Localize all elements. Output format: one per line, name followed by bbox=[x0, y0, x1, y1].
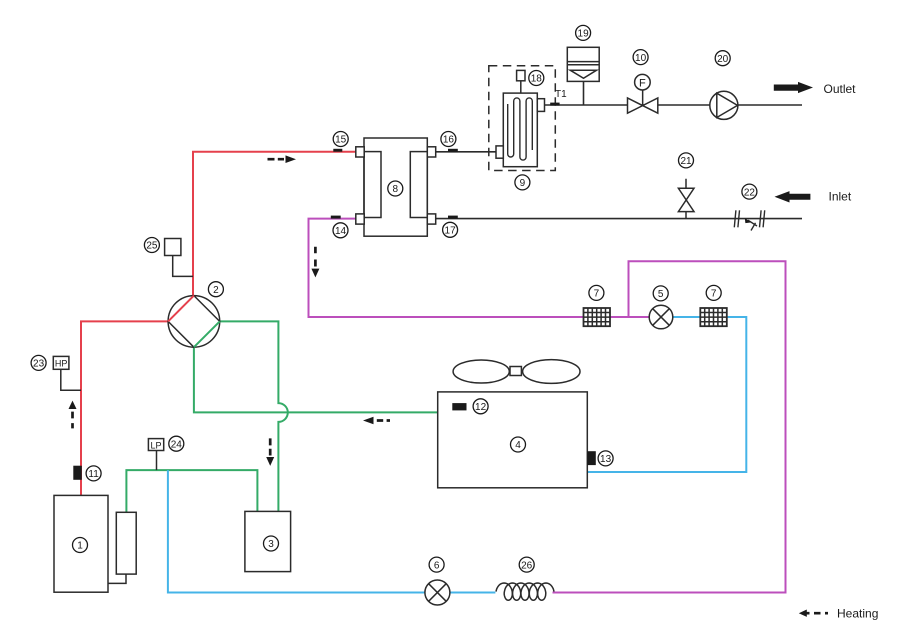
wire cyan: valve 6 to coil 26 bbox=[450, 592, 496, 594]
sensor 11 block bbox=[73, 466, 82, 480]
HX 8 port stub bottom-left bbox=[356, 214, 364, 224]
filter 7a grid bbox=[584, 308, 611, 326]
sensor tick 17 bbox=[448, 216, 458, 219]
label 18 bbox=[529, 71, 544, 86]
label 13 bbox=[598, 451, 613, 466]
heating flow arrow up beside red line bbox=[71, 412, 74, 429]
unit 4 box (air heat exchanger) bbox=[438, 392, 588, 488]
sensor tick 14 bbox=[331, 216, 341, 219]
sensor tick 16 bbox=[448, 149, 458, 152]
label 15 bbox=[333, 132, 348, 147]
label 20 bbox=[715, 51, 730, 66]
label 7a bbox=[589, 285, 604, 300]
label 24 bbox=[169, 436, 184, 451]
LP switch 24 wire bbox=[156, 451, 158, 471]
svg-text:20: 20 bbox=[717, 54, 729, 65]
wire magenta: HX port 14 left, down, right to valve 5 bbox=[309, 219, 650, 317]
HX 8 port stub bottom-right bbox=[427, 214, 435, 224]
svg-text:23: 23 bbox=[33, 359, 45, 370]
HP switch 23 wire bbox=[61, 369, 81, 390]
svg-text:7: 7 bbox=[594, 289, 600, 300]
svg-text:19: 19 bbox=[578, 29, 590, 40]
wire magenta: tee up, right, down right side, along bottom to coil 26 bbox=[553, 261, 786, 592]
heating flow arrow down beside magenta drop bbox=[314, 247, 317, 267]
svg-text:26: 26 bbox=[521, 560, 533, 571]
expansion tank 19 body bbox=[567, 47, 599, 81]
fan hub bbox=[510, 367, 521, 376]
valve 6 bbox=[425, 580, 450, 605]
label 17 bbox=[443, 222, 458, 237]
svg-text:11: 11 bbox=[88, 469, 99, 480]
wire cyan: unit 4 port 13 right and up to filter 7b bbox=[587, 317, 746, 472]
svg-text:4: 4 bbox=[515, 440, 521, 451]
sensor 25 wire bbox=[173, 256, 193, 277]
wire green: suction header over unit 1 to unit 3 bbox=[126, 470, 257, 512]
label 5 bbox=[653, 286, 668, 301]
svg-text:F: F bbox=[639, 77, 646, 89]
HX 8 port stub top-left bbox=[356, 147, 364, 157]
sensor tick T1 bbox=[550, 103, 559, 106]
heating flow arrow on red line (right) bbox=[268, 158, 285, 161]
coil 26 loops bbox=[496, 583, 554, 600]
HX 8 port stub top-right bbox=[427, 147, 435, 157]
pump 20 circle bbox=[710, 91, 738, 119]
sensor 25 box bbox=[165, 239, 181, 256]
svg-text:7: 7 bbox=[711, 289, 717, 300]
flow switch F circle bbox=[635, 74, 651, 90]
svg-text:T1: T1 bbox=[555, 89, 567, 100]
svg-text:15: 15 bbox=[335, 135, 347, 146]
svg-text:24: 24 bbox=[171, 439, 183, 450]
label 26 bbox=[519, 557, 534, 572]
svg-text:Heating: Heating bbox=[837, 606, 878, 620]
label 8 bbox=[388, 181, 403, 196]
wire black: expansion tank 19 stem bbox=[583, 81, 585, 105]
wire red discharge: compressor to valve2 top to HX port 15 bbox=[193, 152, 356, 296]
valve 21 bowtie bbox=[678, 188, 694, 211]
label 23 bbox=[31, 355, 46, 370]
svg-text:Outlet: Outlet bbox=[824, 82, 857, 96]
filter 7b grid bbox=[700, 308, 727, 326]
svg-text:17: 17 bbox=[445, 226, 457, 237]
4-way valve 2 diamond black edges bbox=[168, 296, 220, 348]
filter 7a body bbox=[584, 308, 611, 326]
svg-text:8: 8 bbox=[393, 184, 399, 195]
legend heating arrow bbox=[806, 612, 829, 615]
accumulator (thin vessel beside unit 1) bbox=[116, 512, 136, 574]
tank 9 dashed enclosure bbox=[489, 66, 556, 171]
svg-text:LP: LP bbox=[150, 440, 161, 450]
sensor 12 block bbox=[452, 403, 466, 410]
expansion tank 19 membrane lines bbox=[567, 62, 599, 65]
svg-text:16: 16 bbox=[443, 135, 455, 146]
svg-text:3: 3 bbox=[268, 539, 274, 550]
label 16 bbox=[441, 132, 456, 147]
4-way valve 2 red path edge bbox=[168, 296, 194, 322]
svg-text:Inlet: Inlet bbox=[829, 190, 852, 204]
svg-text:10: 10 bbox=[635, 53, 647, 64]
4-way valve 2 green path edge bbox=[194, 321, 220, 347]
wire black outlet line: tank 9 to right end bbox=[545, 104, 803, 106]
label 9 bbox=[515, 175, 530, 190]
inlet arrow bbox=[775, 191, 811, 202]
label 14 bbox=[333, 223, 348, 238]
svg-text:12: 12 bbox=[475, 402, 487, 413]
tank 9 vessel bbox=[503, 93, 537, 167]
wire cyan: filter 7b to valve 5 bbox=[673, 316, 701, 318]
LP switch 24 box bbox=[148, 439, 163, 451]
PIPES bbox=[81, 81, 802, 592]
wire green: valve2 bottom to unit 4 bbox=[194, 347, 438, 412]
label 11 bbox=[86, 466, 101, 481]
label 6 bbox=[429, 557, 444, 572]
unit 3 box bbox=[245, 511, 291, 571]
svg-text:HP: HP bbox=[55, 359, 68, 369]
4-way valve 2 circle bbox=[168, 296, 220, 348]
union 22 left double bars bbox=[734, 210, 739, 227]
sensor 13 block bbox=[587, 451, 596, 465]
valve 21 stem bbox=[685, 179, 687, 219]
union 22 right double bars bbox=[760, 210, 765, 227]
svg-text:18: 18 bbox=[531, 74, 543, 85]
label 1 bbox=[73, 538, 88, 553]
heating flow arrow down beside green drop bbox=[269, 438, 272, 455]
label 7b bbox=[706, 285, 721, 300]
valve 10 bowtie bbox=[628, 98, 658, 113]
svg-text:14: 14 bbox=[335, 226, 347, 237]
label 3 bbox=[264, 536, 279, 551]
expansion valve 5 bbox=[649, 305, 673, 329]
wire red: valve2 left to HP drop to unit 1 bbox=[81, 321, 168, 495]
filter 7b body bbox=[700, 308, 727, 326]
HX 8 right plate bbox=[410, 152, 427, 218]
plate heat exchanger 8 outer body bbox=[364, 138, 427, 236]
union 22 arrow mark bbox=[748, 220, 757, 230]
label 25 bbox=[144, 238, 159, 253]
sensor 18 box bbox=[517, 70, 525, 80]
wire black: accumulator bottom to unit 1 bbox=[108, 574, 126, 583]
svg-text:5: 5 bbox=[658, 289, 664, 300]
sensor tick 15 bbox=[333, 149, 342, 152]
svg-text:2: 2 bbox=[213, 285, 219, 296]
compressor U1 (unit 1 box) bbox=[54, 495, 108, 592]
expansion tank 19 triangle bbox=[570, 70, 596, 78]
label 2 bbox=[208, 282, 223, 297]
svg-text:9: 9 bbox=[520, 178, 526, 189]
heating flow arrow left on green line bbox=[377, 419, 390, 422]
sensor 18 wire bbox=[520, 81, 522, 93]
svg-text:13: 13 bbox=[600, 454, 612, 465]
fan left blade bbox=[453, 360, 509, 383]
flow switch F stem bbox=[642, 90, 644, 106]
tank 9 coil bbox=[508, 98, 533, 160]
fan right blade bbox=[523, 360, 580, 384]
svg-text:6: 6 bbox=[434, 560, 440, 571]
label 12 bbox=[473, 399, 488, 414]
pump 20 triangle bbox=[717, 93, 738, 117]
tank 9 right stub bbox=[537, 99, 544, 112]
label 10 bbox=[633, 50, 648, 65]
HP switch 23 box bbox=[53, 356, 69, 369]
label 21 bbox=[679, 153, 694, 168]
svg-text:21: 21 bbox=[680, 156, 692, 167]
svg-text:1: 1 bbox=[77, 541, 83, 552]
outlet arrow bbox=[774, 82, 813, 93]
label 19 bbox=[576, 25, 591, 40]
wire green: valve2 right, down with hop, to unit 3 bbox=[220, 321, 288, 511]
svg-text:25: 25 bbox=[146, 241, 158, 252]
svg-text:22: 22 bbox=[744, 187, 756, 198]
HX 8 left plate bbox=[364, 152, 381, 218]
tank 9 left stub bbox=[496, 146, 503, 158]
wire black: HX port 16 to tank 9 bbox=[436, 151, 496, 153]
label 22 bbox=[742, 184, 757, 199]
wire cyan: header tee down and along bottom to valve 6 bbox=[168, 470, 425, 592]
wire black inlet line: HX port 17 to right end bbox=[436, 218, 802, 220]
label 4 bbox=[511, 437, 526, 452]
